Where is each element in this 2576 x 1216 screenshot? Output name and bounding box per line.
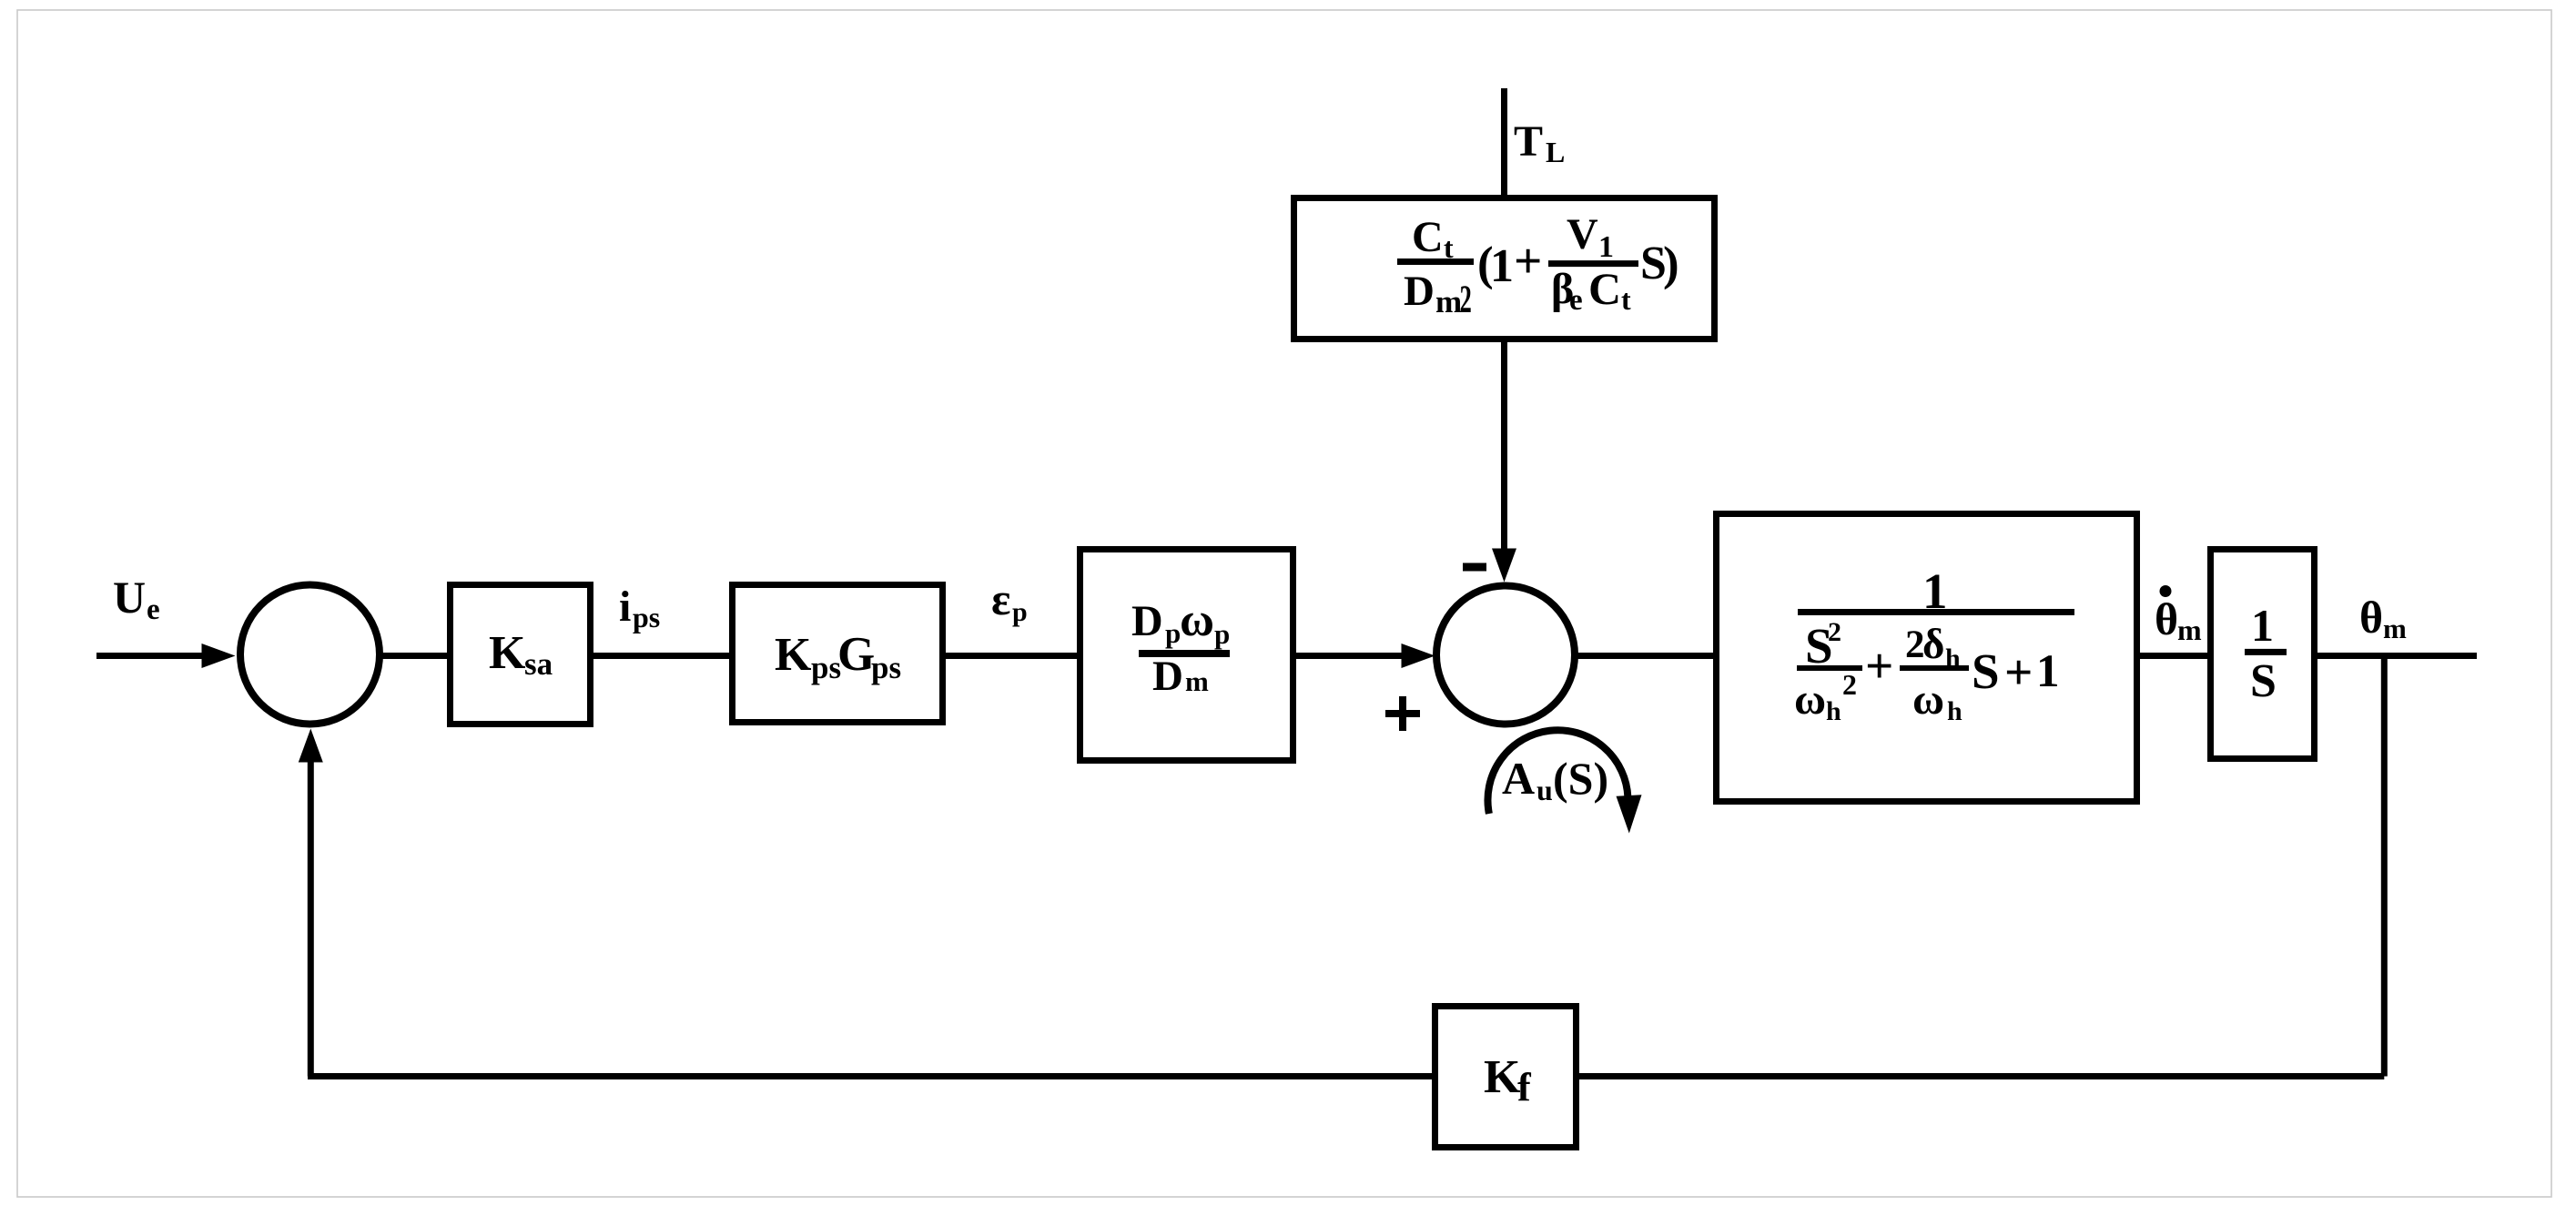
block Kf bbox=[1435, 1007, 1577, 1148]
svg-text:p: p bbox=[1165, 617, 1181, 649]
svg-text:D: D bbox=[1152, 653, 1183, 700]
plus sign at S2 bbox=[1385, 696, 1420, 731]
node Ue input label bbox=[113, 572, 160, 626]
svg-text:h: h bbox=[1947, 696, 1962, 726]
wire feedback riser up to S1 bbox=[299, 729, 323, 1077]
wire feedback left segment bbox=[308, 1073, 1432, 1079]
summing junction S1 bbox=[240, 585, 380, 725]
svg-text:S: S bbox=[2250, 655, 2277, 707]
svg-text:p: p bbox=[1012, 597, 1028, 627]
wire S1 to Ksa bbox=[380, 653, 450, 659]
wire hydraulic block to integrator bbox=[2140, 653, 2211, 659]
svg-text:m: m bbox=[1185, 665, 1209, 697]
block DpWp/Dm bbox=[1080, 550, 1293, 761]
svg-text:K: K bbox=[775, 629, 812, 681]
wire TL input down to disturbance block bbox=[1501, 88, 1507, 198]
svg-text:+: + bbox=[2004, 644, 2033, 700]
node ep label bbox=[991, 573, 1028, 627]
block integrator 1/S bbox=[2211, 550, 2315, 759]
wire KpsGps to Dp block bbox=[946, 653, 1080, 659]
wire feedback right segment bbox=[1579, 1073, 2384, 1079]
svg-text:C: C bbox=[1588, 263, 1621, 314]
wire S2 to hydraulic block bbox=[1575, 653, 1717, 659]
svg-text:ω: ω bbox=[1794, 675, 1826, 724]
svg-text:+: + bbox=[1865, 638, 1893, 694]
block Ksa bbox=[451, 585, 591, 725]
svg-text:K: K bbox=[1484, 1051, 1521, 1103]
svg-text:θ: θ bbox=[2359, 592, 2383, 643]
svg-text:1: 1 bbox=[2251, 600, 2274, 651]
node TL label bbox=[1514, 117, 1565, 168]
svg-text:C: C bbox=[1412, 213, 1444, 261]
svg-text:h: h bbox=[1826, 696, 1841, 726]
svg-text:1: 1 bbox=[1598, 230, 1614, 264]
wire Dp block to summing junction S2 bbox=[1296, 643, 1435, 668]
svg-text:G: G bbox=[837, 628, 875, 681]
svg-text:A: A bbox=[1502, 753, 1535, 804]
wire branch down from output bbox=[2381, 653, 2388, 1077]
svg-text:ω: ω bbox=[1180, 594, 1214, 646]
svg-text:f: f bbox=[1517, 1065, 1532, 1110]
svg-text:D: D bbox=[1404, 268, 1435, 315]
svg-text:U: U bbox=[113, 572, 146, 623]
svg-text:(S): (S) bbox=[1553, 753, 1608, 804]
svg-text:u: u bbox=[1536, 774, 1553, 806]
svg-text:1: 1 bbox=[1490, 240, 1514, 292]
svg-text:K: K bbox=[489, 627, 526, 679]
wire disturbance block down to S2 bbox=[1492, 339, 1516, 583]
svg-text:ω: ω bbox=[1912, 675, 1944, 724]
svg-text:δ: δ bbox=[1922, 621, 1944, 668]
wire integrator to output bbox=[2317, 653, 2477, 659]
svg-text:e: e bbox=[147, 593, 160, 626]
block Ct/Dm2 (1 + V1/(BeCt) S) bbox=[1294, 198, 1715, 339]
block 1/(S2/wh2 + 2dh/wh S + 1) bbox=[1717, 514, 2137, 802]
svg-text:m: m bbox=[1435, 284, 1462, 319]
node theta-m output label bbox=[2359, 592, 2407, 644]
wire input Ue to summing junction S1 bbox=[96, 643, 236, 668]
minus sign at S2 bbox=[1463, 563, 1486, 572]
svg-text:D: D bbox=[1131, 597, 1163, 645]
svg-text:S: S bbox=[1972, 643, 2000, 699]
svg-text:p: p bbox=[1214, 618, 1230, 650]
svg-text:m: m bbox=[2177, 613, 2202, 646]
rotation arrow Au(S) bbox=[1487, 730, 1641, 833]
svg-text:i: i bbox=[619, 583, 631, 631]
svg-text:t: t bbox=[1621, 283, 1631, 316]
node ips label bbox=[619, 583, 660, 633]
svg-text:e: e bbox=[1569, 284, 1583, 317]
svg-text:ε: ε bbox=[991, 573, 1010, 624]
svg-text:L: L bbox=[1546, 136, 1565, 168]
node theta-dot-m label bbox=[2155, 585, 2202, 646]
svg-text:): ) bbox=[1663, 238, 1679, 290]
svg-text:V: V bbox=[1567, 210, 1598, 258]
summing junction S2 bbox=[1436, 586, 1575, 725]
svg-text:1: 1 bbox=[2036, 646, 2060, 697]
svg-text:T: T bbox=[1514, 117, 1543, 166]
svg-text:+: + bbox=[1514, 233, 1542, 289]
svg-text:2: 2 bbox=[1460, 278, 1472, 321]
svg-text:2: 2 bbox=[1842, 668, 1857, 701]
block KpsGps bbox=[733, 585, 943, 723]
wire Ksa to KpsGps bbox=[593, 653, 733, 659]
svg-text:ps: ps bbox=[633, 601, 660, 633]
svg-text:θ: θ bbox=[2155, 593, 2178, 644]
svg-text:m: m bbox=[2383, 613, 2407, 644]
svg-text:ps: ps bbox=[871, 650, 901, 685]
svg-text:2: 2 bbox=[1828, 617, 1841, 647]
svg-text:sa: sa bbox=[524, 646, 553, 682]
